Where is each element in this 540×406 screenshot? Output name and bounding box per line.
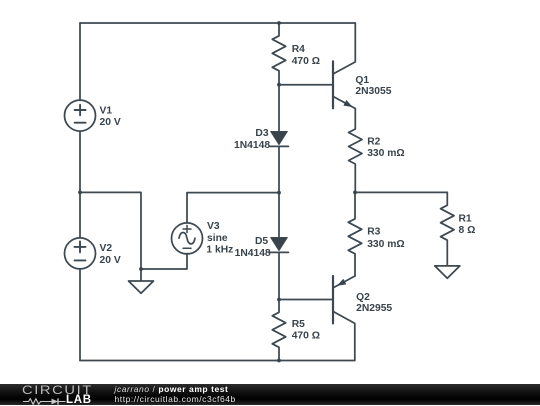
- svg-text:8 Ω: 8 Ω: [459, 225, 476, 236]
- svg-text:D5: D5: [255, 236, 268, 247]
- svg-text:330 mΩ: 330 mΩ: [367, 148, 404, 159]
- node R4 / D3 / Q1 base: [277, 83, 281, 87]
- svg-text:sine: sine: [207, 233, 228, 244]
- voltage source V2: [65, 238, 96, 269]
- node ground junction: [139, 267, 143, 271]
- svg-text:R2: R2: [367, 137, 380, 148]
- footer bar: [0, 384, 540, 405]
- wire Q2 base: [279, 299, 333, 301]
- wire top rail: [80, 22, 355, 24]
- resistor R1: [441, 192, 454, 265]
- svg-text:20 V: 20 V: [100, 117, 121, 128]
- svg-text:V1: V1: [100, 105, 113, 116]
- node R5 / bottom rail: [277, 359, 281, 363]
- wire left rail mid (V1 to V2): [79, 132, 81, 238]
- node R2 / R3 / output: [353, 191, 357, 195]
- svg-text:20 V: 20 V: [100, 255, 121, 266]
- diode D3: [270, 85, 289, 193]
- diode D5: [270, 193, 289, 300]
- wire bottom rail: [80, 360, 355, 362]
- svg-text:1N4148: 1N4148: [234, 140, 270, 151]
- svg-text:2N2955: 2N2955: [356, 303, 392, 314]
- wire Q1 base: [279, 84, 332, 86]
- node D5 / R5 / Q2 base: [277, 298, 281, 302]
- footer url line: [115, 395, 236, 404]
- resistor R2: [349, 109, 362, 193]
- svg-text:R3: R3: [367, 227, 380, 238]
- CircuitLab logo symbol (wire-resistor-diode): [23, 397, 67, 406]
- ground GND1: [129, 269, 154, 293]
- svg-text:R4: R4: [292, 44, 305, 55]
- CircuitLab logo text CIRCUIT: [22, 385, 93, 396]
- svg-text:1 kHz: 1 kHz: [206, 245, 233, 256]
- node top rail / R4: [277, 21, 281, 25]
- wire left rail top (to V1): [79, 23, 81, 100]
- wire output rail to R1: [355, 191, 447, 193]
- svg-text:Q1: Q1: [355, 75, 369, 86]
- wire V3 plus to diode chain: [187, 193, 279, 223]
- node D3 / D5 / V3: [277, 191, 281, 195]
- svg-text:1N4148: 1N4148: [235, 248, 271, 259]
- resistor R3: [348, 192, 361, 276]
- ground GND2: [435, 266, 460, 278]
- wire left rail bottom (V2 to bottom rail): [79, 269, 81, 361]
- footer credit line: [115, 385, 229, 394]
- svg-text:V3: V3: [207, 221, 220, 232]
- transistor Q2: [333, 276, 355, 361]
- resistor R4: [272, 23, 285, 85]
- voltage source V3: [172, 223, 203, 254]
- wire ground node to V3 minus: [141, 254, 187, 270]
- svg-text:470 Ω: 470 Ω: [292, 331, 320, 342]
- resistor R5: [272, 300, 285, 361]
- svg-text:D3: D3: [255, 128, 268, 139]
- CircuitLab logo text LAB: [66, 396, 92, 405]
- svg-text:R1: R1: [459, 213, 472, 224]
- voltage source V1: [65, 100, 96, 131]
- node V1-V2 midpoint: [78, 191, 82, 195]
- svg-text:2N3055: 2N3055: [355, 86, 391, 97]
- svg-text:330 mΩ: 330 mΩ: [367, 239, 404, 250]
- svg-text:R5: R5: [292, 319, 305, 330]
- transistor Q1: [333, 23, 355, 109]
- svg-text:Q2: Q2: [356, 292, 370, 303]
- svg-text:470 Ω: 470 Ω: [292, 56, 320, 67]
- svg-text:V2: V2: [100, 243, 113, 254]
- wire midpoint branch to ground node: [80, 192, 141, 269]
